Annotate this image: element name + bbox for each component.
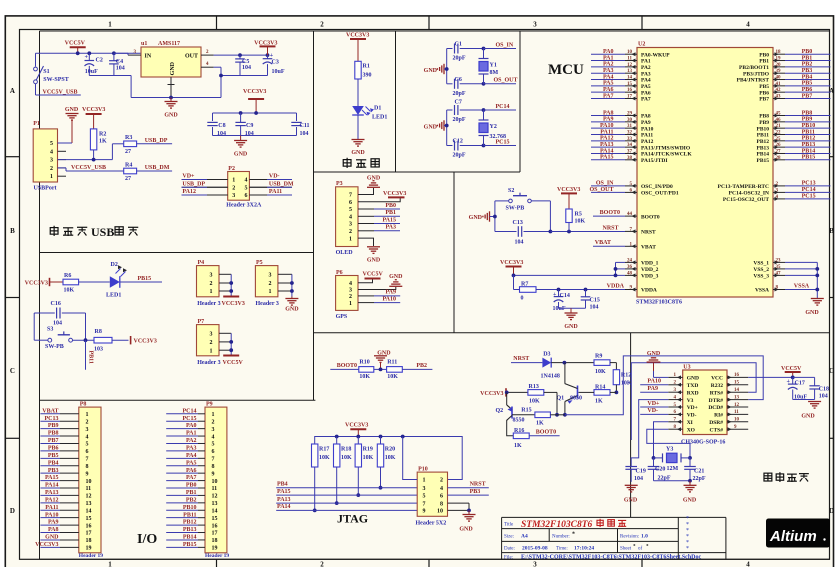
svg-text:Title: Title xyxy=(504,523,514,528)
svg-text:22pF: 22pF xyxy=(693,476,706,482)
svg-text:14: 14 xyxy=(627,76,633,81)
svg-text:27: 27 xyxy=(776,149,782,154)
resistor R14 1K xyxy=(579,385,617,405)
svg-text:PA12: PA12 xyxy=(641,139,654,145)
svg-text:17: 17 xyxy=(627,95,633,100)
svg-text:R17: R17 xyxy=(319,447,329,453)
svg-text:D3: D3 xyxy=(543,351,550,357)
svg-text:PA11: PA11 xyxy=(45,505,58,511)
svg-text:PC13-TAMPER-RTC: PC13-TAMPER-RTC xyxy=(718,184,769,190)
svg-text:VDDA: VDDA xyxy=(607,283,625,289)
svg-text:RXD: RXD xyxy=(687,390,699,396)
resistor R3 27 xyxy=(124,135,172,155)
svg-text:104: 104 xyxy=(515,240,524,246)
svg-text:10K: 10K xyxy=(575,219,586,225)
svg-text:OLED: OLED xyxy=(336,250,354,256)
net labels PC13-PC15 right xyxy=(785,181,831,200)
connector P3 OLED xyxy=(336,181,358,256)
svg-text:BOOT0: BOOT0 xyxy=(641,214,660,220)
svg-text:PA2: PA2 xyxy=(641,65,651,71)
svg-text:104: 104 xyxy=(217,131,226,137)
resistor R10 10K xyxy=(359,360,387,380)
svg-text:PB2: PB2 xyxy=(802,62,813,68)
capacitor C9 104 xyxy=(235,113,253,137)
svg-text:BOOT0: BOOT0 xyxy=(600,210,620,216)
svg-text:12: 12 xyxy=(734,403,740,408)
svg-text:NRST: NRST xyxy=(602,225,618,231)
svg-text:GND: GND xyxy=(45,535,59,541)
svg-text:3: 3 xyxy=(533,21,537,29)
svg-text:19: 19 xyxy=(212,546,218,552)
capacitor C11 104 xyxy=(291,122,309,137)
svg-text:41: 41 xyxy=(776,82,782,87)
resistor R18 10K xyxy=(334,437,353,506)
svg-text:SW-SPST: SW-SPST xyxy=(43,77,68,83)
svg-text:P10: P10 xyxy=(418,466,428,472)
resistor R7 0 xyxy=(514,281,626,301)
svg-text:P1: P1 xyxy=(33,121,40,127)
svg-text:3: 3 xyxy=(269,273,272,279)
capacitor C19 104 xyxy=(625,467,645,482)
svg-text:4: 4 xyxy=(86,434,89,440)
net labels OS_IN OS_OUT at U2 xyxy=(589,181,625,194)
svg-text:4: 4 xyxy=(349,281,352,287)
svg-text:9: 9 xyxy=(423,509,426,515)
connector P4 Header 3 xyxy=(197,260,234,307)
ground sideways at Y2 xyxy=(424,120,447,130)
connector P10 Header 5X2 xyxy=(416,466,448,526)
svg-text:4: 4 xyxy=(349,215,352,221)
svg-text:PB13: PB13 xyxy=(183,527,197,533)
svg-text:10K: 10K xyxy=(359,374,370,380)
svg-text:23: 23 xyxy=(776,258,782,263)
svg-text:2: 2 xyxy=(349,229,352,235)
svg-text:VD-: VD- xyxy=(647,408,658,414)
svg-text:C2: C2 xyxy=(96,58,103,64)
svg-text:PB0: PB0 xyxy=(385,203,396,209)
svg-text:PB1: PB1 xyxy=(759,59,769,65)
svg-text:1: 1 xyxy=(269,289,272,295)
net label BOOT0 at R10 xyxy=(330,363,359,369)
svg-text:VD-: VD- xyxy=(687,413,697,419)
ground flag on serial rail xyxy=(647,351,661,377)
svg-text:PA5: PA5 xyxy=(186,460,197,466)
svg-text:TXD: TXD xyxy=(687,383,699,389)
svg-text:1K: 1K xyxy=(99,139,107,145)
power port VCC3V3 at P3 xyxy=(383,191,406,198)
wire P3 pin7 to ground xyxy=(358,188,374,195)
svg-text:+: + xyxy=(553,292,557,298)
svg-text:1N4148: 1N4148 xyxy=(541,374,560,380)
svg-text:2: 2 xyxy=(50,166,53,172)
svg-text:PA14: PA14 xyxy=(277,504,291,510)
ground flag below P3 pin1 xyxy=(367,247,381,264)
svg-text:30: 30 xyxy=(627,118,633,123)
LED D1 xyxy=(352,106,387,140)
svg-text:C11: C11 xyxy=(300,123,310,129)
svg-text:GND: GND xyxy=(367,258,381,264)
svg-text:VSS_1: VSS_1 xyxy=(753,261,769,267)
wire P10 pin1 to rail xyxy=(403,437,418,480)
svg-text:PC15: PC15 xyxy=(802,194,816,200)
svg-text:CTS#: CTS# xyxy=(710,427,724,433)
regulator U1 AMS117 xyxy=(141,41,201,77)
svg-text:11: 11 xyxy=(212,486,218,492)
svg-text:2: 2 xyxy=(210,281,213,287)
svg-text:10: 10 xyxy=(734,418,740,423)
U3 pin stubs and numbers xyxy=(668,373,748,431)
svg-text:PA4: PA4 xyxy=(641,78,651,84)
svg-text:12M: 12M xyxy=(667,466,679,472)
svg-text:PB8: PB8 xyxy=(759,114,769,120)
svg-text:I/O: I/O xyxy=(137,532,157,547)
svg-text:43: 43 xyxy=(776,95,782,100)
svg-text:10K: 10K xyxy=(621,381,632,387)
ground flag below P5 xyxy=(285,297,299,313)
svg-text:GND: GND xyxy=(164,113,178,119)
svg-text:VD+: VD+ xyxy=(182,174,195,180)
svg-text:3: 3 xyxy=(533,561,537,567)
power port VCC3V3 below P4 xyxy=(222,297,245,308)
wire C20/C21 ground xyxy=(654,479,692,483)
svg-text:LED1: LED1 xyxy=(372,115,387,121)
U2 pin stubs and numbers right xyxy=(773,50,785,291)
svg-text:R20: R20 xyxy=(385,447,395,453)
U3 pin names xyxy=(687,376,724,434)
svg-text:PB7: PB7 xyxy=(802,93,813,99)
svg-text:S1: S1 xyxy=(43,69,49,75)
power port VCC5V below P7 xyxy=(223,356,244,367)
svg-text:Header 3: Header 3 xyxy=(197,360,220,366)
svg-text:LED1: LED1 xyxy=(106,293,121,299)
svg-text:A: A xyxy=(10,87,15,95)
net label wires at P9 xyxy=(166,408,205,548)
svg-text:PB12: PB12 xyxy=(183,520,197,526)
svg-text:PA3: PA3 xyxy=(641,71,651,77)
svg-text:10uF: 10uF xyxy=(272,69,285,75)
svg-text:4: 4 xyxy=(212,434,215,440)
svg-text:PA11: PA11 xyxy=(269,189,282,195)
svg-text:5: 5 xyxy=(50,141,53,147)
switch S3 SW-PB xyxy=(45,327,73,350)
svg-text:10: 10 xyxy=(212,479,218,485)
wire Q2 base to R15 xyxy=(512,414,535,416)
net label PB1 at P3 xyxy=(358,210,400,216)
svg-text:PC14: PC14 xyxy=(496,104,510,110)
svg-text:PA0: PA0 xyxy=(186,423,197,429)
svg-text:20pF: 20pF xyxy=(453,56,466,62)
svg-text:VD+: VD+ xyxy=(687,405,698,411)
resistor R12 10K xyxy=(613,370,632,395)
svg-text:8: 8 xyxy=(440,501,443,507)
svg-text:20pF: 20pF xyxy=(453,91,466,97)
ground flag below C21 xyxy=(683,481,697,504)
svg-text:E:\STM32-CORE\STM32F103-C8T6\S: E:\STM32-CORE\STM32F103-C8T6\STM32F103-C… xyxy=(521,554,702,560)
svg-text:19: 19 xyxy=(776,57,782,62)
svg-text:USB_DM: USB_DM xyxy=(145,165,170,171)
svg-text:104: 104 xyxy=(242,65,251,71)
svg-text:V3: V3 xyxy=(687,398,694,404)
wire GND rail serial xyxy=(631,363,756,440)
svg-text:USBPort: USBPort xyxy=(34,186,57,192)
net label PA9 at P6 xyxy=(358,290,400,296)
svg-text:GND: GND xyxy=(801,414,815,420)
svg-text:10K: 10K xyxy=(363,455,374,461)
svg-text:16: 16 xyxy=(734,373,740,378)
svg-text:13: 13 xyxy=(627,69,633,74)
U1 pin 2 OUT xyxy=(201,50,214,55)
svg-text:VCC5V: VCC5V xyxy=(65,41,86,47)
svg-text:17: 17 xyxy=(86,531,92,537)
svg-text:104: 104 xyxy=(590,305,599,311)
svg-text:24: 24 xyxy=(627,258,633,263)
svg-text:46: 46 xyxy=(776,118,782,123)
svg-text:AMS117: AMS117 xyxy=(158,41,180,47)
svg-text:VCC3V3: VCC3V3 xyxy=(82,107,105,113)
svg-text:D: D xyxy=(10,507,15,515)
svg-text:PA0: PA0 xyxy=(603,49,614,55)
wire VDD rail xyxy=(512,262,625,289)
svg-text:3: 3 xyxy=(349,288,352,294)
svg-text:38: 38 xyxy=(627,156,633,161)
svg-text:PA10: PA10 xyxy=(382,296,396,302)
svg-text:VCC5V: VCC5V xyxy=(363,272,384,278)
svg-text:2: 2 xyxy=(269,281,272,287)
svg-text:OUT: OUT xyxy=(185,54,198,60)
svg-text:VCC3V3: VCC3V3 xyxy=(222,301,245,307)
svg-text:P8: P8 xyxy=(80,401,87,407)
svg-text:BOOT0: BOOT0 xyxy=(536,430,556,436)
svg-text:48: 48 xyxy=(627,271,633,276)
svg-text:4: 4 xyxy=(440,486,443,492)
svg-text:PA15: PA15 xyxy=(382,217,396,223)
svg-text:2: 2 xyxy=(210,340,213,346)
svg-text:47: 47 xyxy=(776,271,782,276)
connector P8 Header 19 xyxy=(79,401,103,559)
svg-text:DSR#: DSR# xyxy=(709,420,723,426)
wire P1 pin2 VCC5V_USB xyxy=(58,165,124,171)
svg-text:3: 3 xyxy=(50,158,53,164)
svg-text:PC13: PC13 xyxy=(45,416,59,422)
power port VCC3V3 serial xyxy=(480,388,528,397)
svg-text:PB8: PB8 xyxy=(802,110,813,116)
svg-text:8: 8 xyxy=(212,464,215,470)
svg-text:USB_DM: USB_DM xyxy=(269,181,294,187)
svg-text:31: 31 xyxy=(627,124,633,129)
svg-text:18: 18 xyxy=(86,538,92,544)
ground flag below C14/C15 xyxy=(559,308,586,330)
svg-text:PA15: PA15 xyxy=(600,155,614,161)
wire P3 pin1 to ground xyxy=(358,238,374,246)
svg-text:2: 2 xyxy=(349,294,352,300)
svg-text:14: 14 xyxy=(212,508,218,514)
svg-text:PA7: PA7 xyxy=(603,93,614,99)
svg-text:42: 42 xyxy=(776,88,782,93)
svg-text:17:10:24: 17:10:24 xyxy=(574,546,594,552)
svg-text:PA3: PA3 xyxy=(186,446,197,452)
svg-text:2: 2 xyxy=(440,478,443,484)
svg-text:PC15: PC15 xyxy=(183,416,197,422)
power port VCC3V3 at R8 xyxy=(131,336,157,345)
net label VD+ at U3 xyxy=(640,401,668,407)
svg-text:GND: GND xyxy=(367,176,381,182)
svg-text:PA2: PA2 xyxy=(603,62,614,68)
wire C16/S3 loop xyxy=(34,313,94,342)
svg-text:PB0: PB0 xyxy=(186,483,197,489)
net labels PB0-PB7 right xyxy=(785,49,831,99)
svg-text:VSS_2: VSS_2 xyxy=(753,267,769,273)
svg-text:SW-PB: SW-PB xyxy=(506,206,525,212)
svg-text:OS_OUT: OS_OUT xyxy=(589,187,613,193)
net label VD- at U3 xyxy=(640,408,668,414)
svg-text:PB1: PB1 xyxy=(186,490,197,496)
svg-text:VSSA: VSSA xyxy=(794,284,810,290)
svg-text:4: 4 xyxy=(245,178,248,184)
svg-text:VCC3V3: VCC3V3 xyxy=(346,33,369,39)
connector P7 Header 3 xyxy=(197,319,234,366)
svg-text:7: 7 xyxy=(212,457,215,463)
svg-text:PA0-WKUP: PA0-WKUP xyxy=(641,52,670,58)
svg-text:8050: 8050 xyxy=(570,396,582,402)
svg-text:PA10: PA10 xyxy=(641,126,654,132)
svg-text:7: 7 xyxy=(349,193,352,199)
svg-text:27: 27 xyxy=(125,149,131,155)
svg-text:of: of xyxy=(638,547,643,552)
svg-text:PA7: PA7 xyxy=(641,97,651,103)
svg-text:1K: 1K xyxy=(595,399,603,405)
wire PA15 row xyxy=(276,489,417,495)
svg-text:PA12: PA12 xyxy=(600,136,614,142)
connector P5 Header 3 xyxy=(255,260,293,307)
svg-text:PA9: PA9 xyxy=(603,117,614,123)
svg-text:Date:: Date: xyxy=(504,547,515,552)
capacitor C17 10uF xyxy=(787,377,808,400)
svg-text:R9: R9 xyxy=(595,353,602,359)
svg-text:1: 1 xyxy=(210,289,213,295)
svg-text:D2: D2 xyxy=(111,262,118,268)
wire cap bank rails xyxy=(213,111,297,135)
svg-text:Y3: Y3 xyxy=(666,446,673,452)
svg-text:12: 12 xyxy=(212,494,218,500)
connector P6 GPS xyxy=(336,270,358,320)
power port VCC5V xyxy=(65,41,86,54)
svg-text:103: 103 xyxy=(94,347,103,353)
svg-text:PA13: PA13 xyxy=(277,497,291,503)
svg-text:34: 34 xyxy=(627,143,633,148)
svg-text:PB13: PB13 xyxy=(756,145,769,151)
svg-text:Header 3: Header 3 xyxy=(256,301,279,307)
svg-text:Header 19: Header 19 xyxy=(205,553,229,559)
capacitor C8 104 xyxy=(207,122,226,137)
svg-text:XI: XI xyxy=(687,420,693,426)
svg-text:OSC_IN/PD0: OSC_IN/PD0 xyxy=(641,184,673,190)
svg-text:VSS_3: VSS_3 xyxy=(753,274,769,280)
U1 pin 3 IN xyxy=(114,50,141,55)
svg-text:PB2/BOOT1: PB2/BOOT1 xyxy=(739,65,769,71)
wire Y2 left vertical xyxy=(445,110,453,146)
svg-text:R6: R6 xyxy=(64,273,71,279)
svg-text:15: 15 xyxy=(627,82,633,87)
svg-text:5: 5 xyxy=(212,442,215,448)
svg-text:GND: GND xyxy=(459,527,473,533)
svg-text:40: 40 xyxy=(776,76,782,81)
svg-text:4: 4 xyxy=(746,21,750,29)
svg-text:VSSA: VSSA xyxy=(755,288,769,294)
svg-text:104: 104 xyxy=(300,131,309,137)
svg-text:OSC_OUT/PD1: OSC_OUT/PD1 xyxy=(641,191,679,197)
svg-text:R15: R15 xyxy=(521,408,531,414)
svg-text:VD-: VD- xyxy=(269,174,280,180)
svg-text:C15: C15 xyxy=(590,298,600,304)
svg-text:PA11: PA11 xyxy=(641,133,653,139)
svg-text:PB10: PB10 xyxy=(756,126,769,132)
svg-text:C16: C16 xyxy=(51,301,61,307)
svg-text:3: 3 xyxy=(349,222,352,228)
svg-text:u1: u1 xyxy=(141,41,147,47)
svg-text:PB6: PB6 xyxy=(802,87,813,93)
svg-text:10K: 10K xyxy=(595,369,606,375)
svg-text:PA10: PA10 xyxy=(45,512,59,518)
svg-text:14: 14 xyxy=(86,508,92,514)
svg-text:10K: 10K xyxy=(64,288,75,294)
svg-text:C3: C3 xyxy=(272,60,279,66)
wire PA13 row xyxy=(276,497,417,503)
wire P6 pin4 to VCC5V xyxy=(358,279,373,283)
svg-text:VDD_1: VDD_1 xyxy=(641,261,659,267)
capacitor C2 10uF xyxy=(85,53,103,75)
resistor R6 10K xyxy=(63,273,110,294)
svg-text:VCC3V3: VCC3V3 xyxy=(243,89,266,95)
svg-text:VCC3V3: VCC3V3 xyxy=(345,422,368,428)
net labels at P2 left xyxy=(182,174,228,196)
svg-text:PB14: PB14 xyxy=(756,152,769,158)
svg-text:10K: 10K xyxy=(387,374,398,380)
section title 电源和USB部分 xyxy=(50,225,138,239)
wire Q1 collector to D3 node xyxy=(564,363,566,384)
svg-text:Y2: Y2 xyxy=(490,124,497,130)
svg-text:DTR#: DTR# xyxy=(709,398,724,404)
svg-text:R10: R10 xyxy=(359,360,369,366)
U2 pin names right xyxy=(718,52,770,293)
U2 pin stubs and numbers left xyxy=(625,50,637,291)
section outline OLED/GPS xyxy=(314,172,830,333)
svg-text:PA5: PA5 xyxy=(641,84,651,90)
wire XO to Y3 xyxy=(647,429,690,458)
resistor R4 27 xyxy=(124,162,172,182)
svg-text:PA3: PA3 xyxy=(603,68,614,74)
svg-text:1: 1 xyxy=(108,561,112,567)
ground flag at P1 pin5 xyxy=(58,107,79,143)
svg-text:2: 2 xyxy=(86,419,89,425)
svg-text:GND: GND xyxy=(351,150,365,156)
svg-text:1K: 1K xyxy=(514,443,522,449)
svg-text:P5: P5 xyxy=(256,260,263,266)
svg-text:3: 3 xyxy=(212,427,215,433)
svg-text:PA15: PA15 xyxy=(277,489,291,495)
svg-text:PB3: PB3 xyxy=(48,468,59,474)
svg-text:+: + xyxy=(85,55,89,61)
svg-text:P3: P3 xyxy=(336,181,343,187)
svg-text:GND: GND xyxy=(389,274,403,280)
ground flag at R10/R11 xyxy=(374,350,391,371)
svg-text:C14: C14 xyxy=(560,293,570,299)
svg-text:GND: GND xyxy=(687,376,699,382)
svg-text:3: 3 xyxy=(232,193,235,199)
svg-text:1: 1 xyxy=(50,174,53,180)
svg-text:Header 19: Header 19 xyxy=(79,553,103,559)
svg-text:PB0: PB0 xyxy=(759,52,769,58)
svg-text:PA14: PA14 xyxy=(45,483,59,489)
